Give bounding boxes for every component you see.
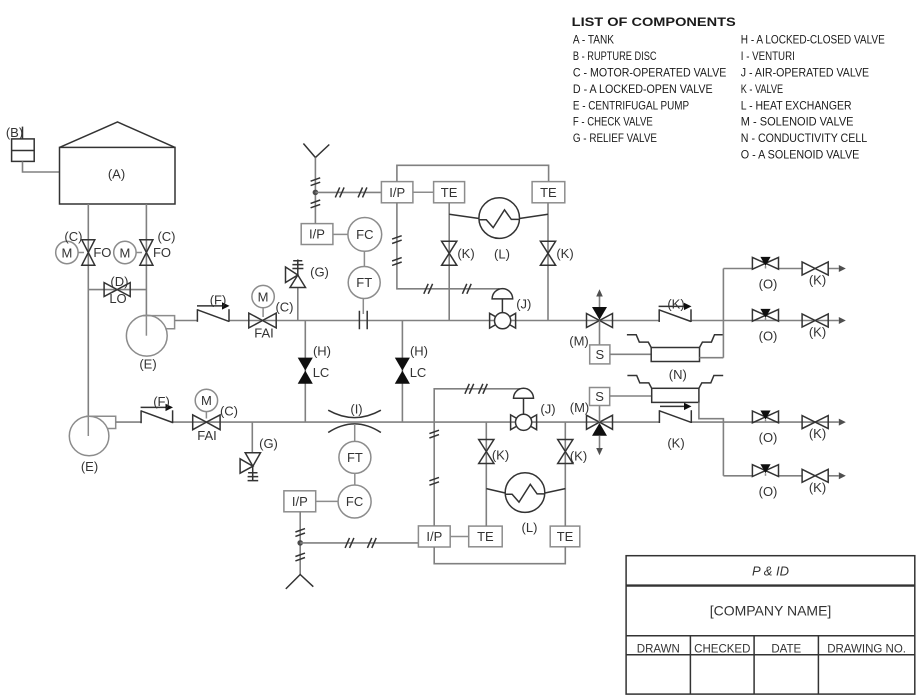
junction dot top — [313, 190, 319, 196]
vent symbol bottom — [286, 575, 314, 589]
signal I/P1 down to J1 actuator — [392, 203, 499, 294]
svg-text:A - TANK: A - TANK — [573, 33, 615, 47]
wire I/P4 to TE4 bottom loop — [434, 547, 565, 564]
svg-text:(K): (K) — [809, 325, 826, 340]
svg-text:DATE: DATE — [771, 643, 801, 655]
svg-text:TE: TE — [540, 185, 557, 200]
svg-text:(C): (C) — [157, 229, 175, 244]
svg-text:(O): (O) — [759, 277, 778, 292]
solenoid valve O4 — [752, 464, 778, 476]
svg-text:DRAWING NO.: DRAWING NO. — [827, 643, 906, 655]
svg-text:LIST OF COMPONENTS: LIST OF COMPONENTS — [572, 15, 736, 29]
svg-text:(I): (I) — [350, 402, 362, 417]
te element TE3 — [469, 526, 503, 547]
svg-text:(K): (K) — [809, 273, 826, 288]
svg-text:M: M — [201, 393, 212, 408]
relief valve G1 — [286, 260, 306, 321]
venturi I — [328, 410, 381, 432]
wire B to tank — [23, 161, 60, 172]
valve K4 — [558, 440, 573, 464]
svg-text:S: S — [595, 347, 604, 362]
svg-text:(O): (O) — [759, 430, 778, 445]
tank A — [60, 122, 176, 204]
svg-text:FO: FO — [153, 245, 171, 260]
svg-text:I/P: I/P — [426, 529, 442, 544]
svg-text:(G): (G) — [310, 265, 329, 280]
svg-text:G - RELIEF VALVE: G - RELIEF VALVE — [573, 131, 657, 145]
wire H2 branch — [401, 321, 403, 423]
svg-text:(M): (M) — [569, 334, 589, 349]
svg-text:I - VENTURI: I - VENTURI — [741, 49, 795, 63]
svg-text:(K): (K) — [809, 480, 826, 495]
svg-text:K - VALVE: K - VALVE — [741, 82, 783, 96]
riser bottom outputs — [722, 422, 724, 476]
arrow at top pipe end — [839, 317, 846, 324]
svg-text:H - A LOCKED-CLOSED VALVE: H - A LOCKED-CLOSED VALVE — [741, 33, 885, 47]
motor-operated valve C1 — [56, 240, 95, 265]
conductivity cell N1 — [627, 335, 724, 362]
motor valve C3 FAI — [249, 285, 276, 328]
svg-text:(N): (N) — [669, 367, 687, 382]
wire H1 branch — [304, 321, 306, 423]
solenoid box S2 — [590, 388, 610, 406]
wire venturi to FT2 — [354, 424, 356, 442]
svg-text:M: M — [61, 245, 72, 260]
svg-text:(J): (J) — [516, 297, 531, 312]
arrow row1 — [839, 265, 846, 272]
locked-closed valve H1 — [298, 358, 313, 384]
svg-text:I/P: I/P — [389, 185, 405, 200]
svg-text:B - RUPTURE DISC: B - RUPTURE DISC — [573, 49, 657, 63]
solenoid 3-way valve M1 — [587, 289, 613, 327]
valve K2 — [540, 241, 555, 265]
valve K row4 — [802, 469, 828, 482]
locked-closed valve H2 — [395, 358, 410, 384]
svg-text:FAI: FAI — [197, 428, 217, 443]
svg-text:(O): (O) — [759, 484, 778, 499]
solenoid 3-way valve M2 — [587, 415, 613, 455]
solenoid valve O2 — [752, 309, 778, 321]
check valve K bottom — [659, 403, 691, 423]
svg-text:(K): (K) — [570, 449, 587, 464]
svg-text:M - SOLENOID VALVE: M - SOLENOID VALVE — [741, 115, 854, 129]
air-operated valve J1 — [490, 289, 516, 329]
svg-text:L - HEAT EXCHANGER: L - HEAT EXCHANGER — [741, 98, 852, 112]
te element TE2 — [532, 182, 565, 203]
svg-text:(E): (E) — [139, 357, 156, 372]
svg-text:TE: TE — [477, 529, 494, 544]
flow controller FC1 — [348, 218, 382, 252]
svg-text:P & ID: P & ID — [752, 564, 789, 579]
svg-text:(H): (H) — [313, 343, 331, 358]
svg-text:(E): (E) — [81, 459, 98, 474]
wire I/P4 to TE3 — [450, 536, 469, 538]
valve K row3 — [802, 416, 828, 429]
svg-text:[COMPANY NAME]: [COMPANY NAME] — [710, 603, 832, 619]
motor-operated valve C2 — [114, 240, 153, 265]
wire S2 to M2 — [599, 406, 601, 423]
orifice flanges — [359, 311, 367, 330]
main top pipe — [175, 320, 839, 322]
svg-text:M: M — [119, 245, 130, 260]
valve K row2 — [802, 314, 828, 327]
te element TE1 — [434, 182, 465, 203]
wire M1 to S1 — [599, 321, 601, 345]
svg-text:(K): (K) — [556, 246, 573, 261]
wire TE1 down to top pipe — [448, 203, 450, 321]
svg-text:(F): (F) — [210, 293, 227, 308]
te element TE4 — [550, 526, 580, 547]
arrow at bottom pipe end — [839, 419, 846, 426]
svg-text:(L): (L) — [522, 520, 538, 535]
wire I/P1 to TE1 — [413, 191, 434, 193]
valve K3 — [479, 440, 494, 464]
wire D branch — [88, 289, 146, 291]
transducer I/P4 — [418, 526, 450, 547]
svg-text:FC: FC — [346, 494, 363, 509]
svg-text:O - A SOLENOID VALVE: O - A SOLENOID VALVE — [741, 148, 860, 162]
svg-text:(H): (H) — [410, 343, 428, 358]
wire tank right outlet down to pump E1 — [145, 204, 147, 336]
wire I/P3 to FC2 — [316, 500, 338, 502]
svg-text:D - A LOCKED-OPEN VALVE: D - A LOCKED-OPEN VALVE — [573, 82, 713, 96]
flow controller FC2 — [338, 485, 371, 518]
relief valve G2 — [240, 422, 260, 481]
svg-text:FT: FT — [347, 450, 363, 465]
arrow row4 — [839, 472, 846, 479]
signal I/P3 down to vent — [295, 512, 305, 575]
wire K3 branch — [485, 422, 487, 526]
wire N1 to riser — [700, 357, 724, 359]
wire FC1 to FT1 — [363, 251, 365, 266]
svg-text:FC: FC — [356, 227, 373, 242]
svg-text:I/P: I/P — [309, 227, 325, 242]
riser top outputs — [722, 269, 724, 358]
wire tank left outlet down to pump E2 — [87, 204, 89, 436]
flow transmitter FT2 — [339, 441, 371, 473]
solenoid box S1 — [590, 345, 610, 364]
transducer I/P2 — [301, 224, 333, 245]
heat exchanger L1 — [449, 198, 548, 239]
svg-text:TE: TE — [441, 185, 458, 200]
svg-text:LO: LO — [109, 291, 126, 306]
valve K1 — [442, 241, 457, 265]
svg-text:(K): (K) — [457, 246, 474, 261]
svg-text:(D): (D) — [110, 274, 128, 289]
svg-text:TE: TE — [557, 529, 574, 544]
svg-text:C - MOTOR-OPERATED VALVE: C - MOTOR-OPERATED VALVE — [573, 65, 726, 79]
svg-text:M: M — [258, 289, 269, 304]
svg-text:FAI: FAI — [254, 326, 274, 341]
wire TE2 down to top pipe — [547, 203, 549, 321]
air-operated valve J2 — [511, 388, 537, 430]
transducer I/P3 — [284, 491, 316, 512]
transducer I/P1 — [381, 182, 413, 203]
rupture disc B — [12, 127, 35, 162]
svg-text:E - CENTRIFUGAL PUMP: E - CENTRIFUGAL PUMP — [573, 98, 689, 112]
svg-text:DRAWN: DRAWN — [637, 643, 680, 655]
svg-text:CHECKED: CHECKED — [694, 643, 750, 655]
svg-text:(G): (G) — [259, 436, 278, 451]
svg-text:(B): (B) — [6, 125, 23, 140]
svg-text:(F): (F) — [153, 394, 170, 409]
svg-text:FT: FT — [356, 275, 372, 290]
svg-text:(C): (C) — [64, 229, 82, 244]
signal loop J2 actuator — [429, 384, 520, 526]
vent symbol top — [303, 144, 329, 158]
wire output row1 — [723, 268, 838, 270]
wire S2 to N2 — [610, 395, 652, 397]
motor valve C4 FAI — [193, 389, 220, 430]
heat exchanger L2 — [486, 473, 565, 513]
svg-text:FO: FO — [93, 245, 111, 260]
main bottom pipe — [116, 421, 839, 423]
svg-text:F - CHECK VALVE: F - CHECK VALVE — [573, 115, 653, 129]
svg-text:(L): (L) — [494, 247, 510, 262]
svg-text:(K): (K) — [809, 426, 826, 441]
svg-text:N - CONDUCTIVITY CELL: N - CONDUCTIVITY CELL — [741, 131, 867, 145]
solenoid valve O1 — [752, 257, 778, 269]
wire N2 to pipe junction — [699, 402, 724, 422]
wire FT2 to FC2 — [354, 473, 356, 485]
signal dot to I/P1 — [315, 187, 381, 197]
centrifugal pump E2 — [69, 416, 115, 456]
locked-open valve D — [104, 283, 130, 297]
svg-text:(O): (O) — [759, 329, 778, 344]
conductivity cell N2 — [627, 376, 723, 403]
centrifugal pump E1 — [126, 315, 174, 356]
wire K4 branch — [564, 422, 566, 526]
check valve F2 — [141, 404, 173, 424]
svg-text:(C): (C) — [220, 404, 238, 419]
svg-text:LC: LC — [410, 365, 427, 380]
wire top loop I/P1 to TE2 — [397, 165, 549, 181]
svg-text:(K): (K) — [667, 436, 684, 451]
svg-text:LC: LC — [313, 365, 330, 380]
signal dot to I/P4 — [300, 538, 418, 548]
flow transmitter FT1 — [348, 267, 380, 299]
svg-text:I/P: I/P — [292, 494, 308, 509]
check valve K top — [659, 303, 692, 322]
wire output row3 extras — [723, 475, 838, 477]
title block — [626, 556, 915, 694]
junction dot bottom — [297, 540, 303, 546]
svg-text:J - AIR-OPERATED VALVE: J - AIR-OPERATED VALVE — [741, 65, 869, 79]
svg-text:S: S — [595, 389, 604, 404]
svg-text:(J): (J) — [540, 402, 555, 417]
solenoid valve O3 — [752, 411, 778, 423]
svg-text:(M): (M) — [570, 400, 590, 415]
signal vent to I/P2 — [311, 158, 321, 224]
svg-text:(K): (K) — [492, 448, 509, 463]
svg-text:(C): (C) — [275, 300, 293, 315]
wire FT1 to orifice — [362, 299, 364, 315]
wire S1 to N1 — [610, 353, 651, 355]
check valve F1 — [197, 302, 230, 322]
wire I/P2 to FC1 — [333, 233, 348, 235]
valve K row1 — [802, 262, 828, 275]
svg-text:(K): (K) — [667, 297, 684, 312]
svg-text:(A): (A) — [108, 167, 125, 182]
list of components — [572, 15, 885, 162]
